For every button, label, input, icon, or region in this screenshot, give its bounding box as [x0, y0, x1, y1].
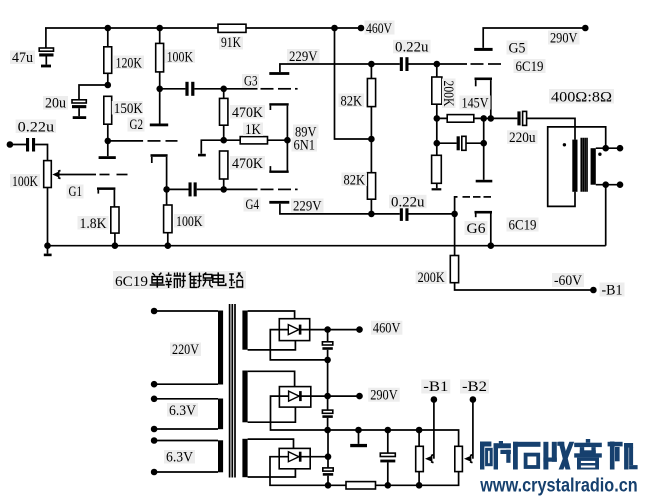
node 82K lower bottom	[368, 211, 375, 218]
wire 6.3V-2 top	[154, 440, 218, 442]
net label 460V supply	[371, 321, 403, 337]
wire rectifier1 AC top	[248, 311, 295, 319]
node G3 coupling junction	[220, 86, 227, 93]
node 120K top	[105, 25, 112, 32]
capacitor C5 coupling to G4	[189, 182, 197, 196]
node 460V branch	[331, 25, 338, 32]
wire bias bus	[328, 430, 459, 446]
node RP2 top	[416, 427, 423, 434]
triode V1a cathode bar with stub	[97, 187, 115, 207]
wire rectifier3 AC bottom	[248, 469, 296, 477]
resistor R9 82K upper	[367, 64, 375, 139]
triode V2b cathode bar with stub	[269, 140, 288, 173]
svg-text:www.crystalradio.cn: www.crystalradio.cn	[479, 476, 637, 497]
svg-text:82K: 82K	[344, 172, 366, 188]
triode V1b plate bar	[150, 124, 168, 127]
svg-text:145V: 145V	[462, 96, 489, 112]
wire rectifier2 DC minus	[271, 396, 328, 430]
svg-text:-B1: -B1	[423, 379, 448, 395]
net label 229V lower	[291, 199, 324, 215]
wire node to ground stub	[201, 140, 223, 154]
transformer T2 secondary winding bar 3	[242, 439, 247, 477]
net label -60V	[552, 273, 584, 289]
svg-text:91K: 91K	[221, 35, 241, 51]
triode V1a plate bar	[99, 156, 116, 159]
svg-text:1.8K: 1.8K	[80, 216, 107, 232]
node ground bus at 100K R5	[165, 242, 172, 249]
label G4	[244, 197, 261, 213]
transformer T1 primary return loop	[548, 127, 606, 206]
label 6N1	[292, 138, 318, 154]
capacitor C7 0.22u lower coupling	[400, 207, 409, 221]
resistor R12 cathode horizontal	[447, 115, 474, 123]
transformer T2 primary 6.3V-2 winding bar	[218, 440, 223, 472]
svg-text:100K: 100K	[167, 50, 194, 66]
capacitor C12 filter bias	[323, 457, 333, 486]
svg-text:220u: 220u	[509, 130, 536, 146]
node 460V filter	[324, 326, 331, 333]
wire node to C4	[160, 88, 186, 90]
wire secondary top stub	[596, 147, 620, 149]
svg-text:470K: 470K	[232, 156, 263, 172]
node cathode network left	[434, 115, 441, 122]
svg-text:G3: G3	[244, 74, 258, 90]
svg-text:150K: 150K	[114, 101, 143, 117]
node 290V filter	[324, 393, 331, 400]
node G2 plate / coupling	[156, 86, 163, 93]
label 89V	[293, 125, 319, 141]
title glyph duan (CJK)	[165, 272, 181, 288]
svg-text:-B2: -B2	[462, 379, 487, 395]
node G4 coupling junction	[220, 186, 227, 193]
node bias bus left	[324, 427, 331, 434]
resistor R15 bias bleeder	[328, 472, 459, 489]
wire stack to 290V rail	[327, 360, 329, 396]
ground for R13	[432, 188, 442, 190]
label 6C19 upper	[514, 59, 546, 75]
transformer T2 primary 6.3V-1 winding bar	[218, 399, 223, 430]
label G1	[67, 184, 84, 200]
terminal secondary bottom b	[617, 181, 624, 188]
value label 82K R9	[339, 93, 365, 109]
net label 290V supply	[368, 388, 400, 404]
terminal -B2	[470, 396, 477, 403]
resistor R6 470K upper	[220, 89, 228, 140]
transformer T1 primary winding bar	[572, 140, 577, 192]
value label 470K R6	[230, 105, 265, 121]
ground for 20u	[73, 116, 87, 119]
value label 0.22u upper	[393, 40, 431, 56]
wire top B+ bus left segment	[45, 27, 218, 29]
svg-text:0.22u: 0.22u	[391, 195, 425, 211]
node ground bus at pot	[44, 242, 51, 249]
transformer T1 label 400ohm:8ohm	[549, 89, 614, 106]
wiper arrow RP3 and -B2 lead	[464, 400, 473, 463]
value label 6.3V second	[164, 450, 195, 466]
value label 470K R8	[230, 156, 265, 172]
svg-text:G6: G6	[467, 221, 487, 237]
svg-text:G1: G1	[69, 184, 83, 200]
net label 460V	[365, 21, 395, 37]
transformer T2 terminal 6.3V-2 top	[151, 437, 158, 444]
title glyph dan (CJK)	[150, 273, 165, 288]
terminal input signal	[7, 141, 14, 148]
node 82K junction	[368, 136, 375, 143]
terminal 460V	[358, 25, 365, 32]
potentiometer RP2 (-B1 adjust)	[416, 430, 424, 485]
triode V1b plate lead	[159, 89, 161, 124]
capacitor C9 bypass	[437, 136, 484, 150]
node 100K top	[156, 25, 163, 32]
wire C6 to G5 node	[409, 63, 437, 65]
pentode V4 G6 plate bar	[476, 180, 493, 183]
svg-text:82K: 82K	[341, 93, 363, 109]
capacitor C6 0.22u upper coupling	[400, 57, 409, 71]
svg-text:0.22u: 0.22u	[395, 40, 429, 56]
label G3	[242, 74, 259, 90]
svg-text:100K: 100K	[12, 174, 38, 190]
capacitor C1 47u electrolytic	[39, 48, 53, 65]
ground symbol main	[44, 246, 52, 257]
value label 200K R14	[416, 270, 447, 286]
value label 200K rotated	[440, 79, 456, 109]
label 145V	[460, 96, 491, 112]
watermark logo glyph shi (CJK)	[513, 442, 541, 470]
net label 290V	[548, 31, 580, 47]
svg-text:290V: 290V	[550, 31, 578, 47]
value label 150K	[112, 101, 143, 117]
terminal 290V	[582, 25, 589, 32]
svg-text:200K: 200K	[440, 81, 456, 107]
wire rectifier2 AC bottom	[248, 407, 296, 422]
title text 6C19 (latin part)	[113, 271, 246, 290]
wire to 20u	[79, 85, 108, 100]
wire 47u to bus	[45, 28, 47, 48]
terminal secondary top b	[617, 145, 624, 152]
wire 220V bottom	[154, 383, 218, 385]
triode V1b cathode bar with stub	[151, 154, 168, 189]
wire C5 to node	[197, 188, 224, 190]
value label 120K	[114, 56, 145, 72]
transformer T2 secondary winding bar 1	[242, 311, 247, 350]
node stack 460V minus	[324, 357, 331, 364]
triode V2a grid dashed line G3	[224, 88, 298, 90]
node cathode row mid	[480, 115, 487, 122]
value label 82K R10	[342, 172, 368, 188]
svg-text:460V: 460V	[373, 321, 401, 337]
watermark logo glyph kuang (CJK)	[480, 441, 511, 470]
ground for 470K divider	[198, 154, 206, 157]
transformer T1 secondary winding bar	[591, 148, 596, 185]
wire 460V feed vertical	[335, 28, 372, 139]
rectifier D2 bridge box	[279, 387, 310, 408]
value label 1.8K	[78, 216, 109, 232]
triode V2a cathode bar with stub	[269, 103, 288, 140]
node ground bus at V4 cathode	[488, 242, 495, 249]
node V1b cathode / 100K / coupling C5	[163, 186, 170, 193]
svg-text:229V: 229V	[293, 199, 322, 215]
svg-text:6N1: 6N1	[294, 138, 316, 154]
ground symbol supply common	[350, 430, 367, 447]
node supply ground	[355, 427, 362, 434]
label G5	[507, 40, 528, 56]
wire lower 229V row to C7	[371, 213, 399, 215]
node 82K upper top	[368, 61, 375, 68]
node RP2 bottom	[416, 482, 423, 489]
svg-text:20u: 20u	[45, 95, 66, 111]
wire rectifier2 DC plus to 290V	[311, 395, 360, 397]
transformer T2 terminal 6.3V-2 bottom	[151, 469, 158, 476]
potentiometer RP1 100K body	[44, 161, 52, 188]
resistor R10 82K lower	[367, 139, 375, 214]
pentode V3 plate bar and lead to 290V	[474, 28, 585, 51]
terminal 460V supply	[356, 326, 363, 333]
svg-text:220V: 220V	[172, 342, 199, 358]
wire upper 229V row to C6	[371, 63, 399, 65]
wire rectifier3 DC minus	[270, 457, 328, 486]
svg-text:47u: 47u	[12, 50, 33, 66]
node C13 bottom	[385, 482, 392, 489]
wire rectifier2 AC top	[248, 371, 295, 386]
value label 91K	[219, 35, 243, 51]
node cathode row at V3 cathode	[488, 115, 495, 122]
rectifier D3 diode symbol	[279, 452, 310, 462]
pentode V3 G5 grid dashed line	[437, 63, 501, 65]
pentode V4 G6 grid dashed line	[455, 197, 491, 214]
terminal 290V supply	[356, 393, 363, 400]
potentiometer RP3 (-B2 adjust)	[455, 446, 463, 471]
ground bus main horizontal	[48, 245, 606, 247]
wire V4 plate lead vertical	[483, 118, 485, 179]
wire 6.3V-1 top	[154, 398, 218, 400]
svg-text:-B1: -B1	[602, 283, 623, 299]
node bypass network right	[480, 140, 487, 147]
watermark logo glyph ji (CJK)	[608, 442, 638, 470]
transformer T1 secondary phase dot	[598, 153, 601, 156]
title glyph wan (CJK)	[197, 273, 213, 288]
capacitor C8 220u output electrolytic	[517, 111, 526, 125]
wire cap to pot	[35, 145, 47, 161]
triode V1a grid dashed line G1	[59, 174, 128, 176]
transformer T2 primary 220V winding bar	[218, 311, 223, 385]
svg-text:6.3V: 6.3V	[169, 403, 196, 419]
title glyph lu (CJK)	[229, 272, 243, 287]
title glyph tui (CJK)	[181, 272, 197, 288]
label G6	[465, 221, 488, 237]
resistor R13 (cathode to ground)	[432, 155, 442, 188]
wire C7 to G6 node	[409, 213, 455, 215]
resistor R2 150K	[104, 96, 112, 141]
resistor R1 120K	[104, 28, 112, 85]
resistor R4 100K (second stage plate feed)	[156, 28, 164, 89]
transformer T2 secondary winding bar 2	[242, 371, 247, 423]
node G6 grid / 200K (bias)	[451, 211, 458, 218]
wire node down	[436, 118, 438, 155]
capacitor C10 filter 460V	[322, 330, 332, 360]
wire G2 grid dashed part	[148, 140, 178, 142]
svg-text:470K: 470K	[232, 105, 263, 121]
wire rectifier1 DC plus to 460V	[310, 329, 360, 331]
resistor 91K (in series with top bus)	[218, 24, 246, 32]
svg-text:0.22u: 0.22u	[18, 119, 55, 135]
capacitor C11 filter 290V	[322, 396, 332, 430]
svg-text:120K: 120K	[116, 56, 143, 72]
watermark logo glyph yin (CJK)	[574, 439, 602, 470]
triode V1a plate lead	[107, 141, 109, 156]
value label 220u	[507, 130, 538, 146]
node bypass network left	[434, 140, 441, 147]
wire pot bottom to ground bus	[47, 188, 49, 246]
svg-text:G5: G5	[509, 40, 526, 56]
pentode V4 cathode bar with stub	[475, 211, 493, 246]
label G2	[128, 117, 145, 133]
node 120K/150K junction	[105, 82, 112, 89]
title glyph dian (CJK)	[213, 272, 226, 285]
triode V2b plate bar and lead	[269, 201, 371, 214]
value label 6.3V first	[167, 403, 198, 419]
capacitor C4 coupling to G3	[185, 82, 194, 96]
rectifier D2 diode symbol	[279, 391, 310, 401]
transformer T1 primary phase dot	[563, 143, 566, 146]
node bottom bus left	[325, 482, 332, 489]
svg-text:229V: 229V	[289, 49, 318, 65]
wire C4 to node	[194, 88, 223, 90]
resistor R5 100K (V1b cathode)	[164, 189, 172, 245]
value label 0.22u lower	[389, 195, 427, 211]
capacitor C3 0.22u input	[26, 138, 35, 152]
resistor R8 470K lower	[220, 151, 228, 189]
node rectifier3 plus	[325, 453, 332, 460]
wire secondary bottom stub	[596, 184, 620, 186]
potentiometer wiper arrow	[52, 170, 60, 178]
triode V2a plate bar and lead	[269, 64, 371, 75]
net label -B2	[460, 379, 489, 395]
value label 47u	[10, 50, 35, 66]
wire 220V top	[154, 310, 218, 312]
rectifier D1 diode symbol	[279, 325, 309, 335]
wire 6.3V-1 bottom	[154, 428, 218, 430]
transformer T2 core lines	[230, 304, 235, 478]
value label 1K	[243, 122, 263, 138]
pentode V3 cathode bar with stub	[475, 78, 493, 119]
svg-text:6C19: 6C19	[516, 59, 544, 75]
terminal -B1	[431, 396, 438, 403]
resistor R11 200K (G5 bias)	[432, 64, 442, 118]
svg-text:290V: 290V	[370, 388, 398, 404]
transformer T2 terminal 6.3V-1 bottom	[151, 426, 158, 433]
watermark logo glyph shou (CJK)	[543, 442, 574, 470]
transformer T2 terminal 220V bottom	[151, 381, 158, 388]
ground for 47u	[41, 65, 51, 68]
wire secondary return to ground bus	[605, 185, 607, 246]
value label 0.22u input	[16, 119, 57, 135]
rectifier D1 bridge box	[279, 319, 309, 341]
value label 20u	[43, 95, 68, 111]
label 6C19 lower	[507, 218, 539, 234]
wiper arrow RP2 and -B1 lead	[425, 400, 434, 463]
rectifier D3 bridge box	[279, 448, 310, 468]
resistor R3 1.8K	[111, 207, 119, 246]
node ground bus at 1.8K	[112, 242, 119, 249]
wire cathode row	[437, 117, 518, 119]
wire top B+ bus right segment	[246, 27, 361, 29]
wire 6.3V-2 bottom	[154, 471, 218, 473]
svg-text:1K: 1K	[245, 122, 261, 138]
value label 100K R4	[165, 50, 196, 66]
node secondary top a	[602, 145, 609, 152]
wire rectifier1 AC bottom	[248, 341, 296, 350]
node G1 plate / G2 grid / 150K	[105, 138, 112, 145]
wire 220u to output transformer	[527, 118, 575, 139]
svg-text:6.3V: 6.3V	[166, 450, 193, 466]
svg-text:6C19: 6C19	[115, 274, 148, 290]
svg-text:G4: G4	[246, 197, 260, 213]
transformer T2 terminal 6.3V-1 top	[151, 396, 158, 403]
wire rectifier3 AC top	[248, 439, 294, 448]
capacitor C13 bias smoothing	[380, 430, 395, 485]
svg-text:460V: 460V	[366, 21, 392, 37]
value label 100K R5	[174, 214, 205, 230]
svg-text:200K: 200K	[418, 270, 445, 286]
wire rectifier1 DC minus	[270, 330, 327, 360]
svg-text:400Ω:8Ω: 400Ω:8Ω	[551, 90, 612, 106]
net label -B1 top	[600, 283, 625, 299]
capacitor C2 20u electrolytic	[72, 100, 86, 116]
value label 100K pot	[10, 174, 40, 190]
wire G2 grid solid part	[108, 140, 143, 142]
wire node to C5	[167, 188, 189, 190]
triode V2b grid dashed line G4	[224, 188, 298, 190]
node C13 top	[385, 427, 392, 434]
node G5 grid / 200K top	[434, 61, 441, 68]
value label 220V	[170, 342, 201, 358]
svg-text:6C19: 6C19	[509, 218, 537, 234]
transformer T2 terminal 220V top	[151, 308, 158, 315]
resistor R7 1K	[224, 137, 288, 144]
node 470K/1K junction	[220, 137, 227, 144]
terminal -B1 top	[590, 287, 597, 294]
node secondary bottom a	[602, 181, 609, 188]
net label 229V upper	[287, 49, 320, 65]
resistor R14 200K (bias feed)	[450, 214, 593, 290]
node V2 cathodes / 1K	[284, 137, 291, 144]
svg-text:100K: 100K	[176, 214, 203, 230]
transformer T1 core lines	[581, 138, 587, 192]
svg-text:-60V: -60V	[554, 273, 582, 289]
wire rectifier3 DC plus to bus	[310, 430, 328, 457]
net label -B1	[421, 379, 450, 395]
svg-text:G2: G2	[130, 117, 144, 133]
wire input to cap	[10, 144, 26, 146]
